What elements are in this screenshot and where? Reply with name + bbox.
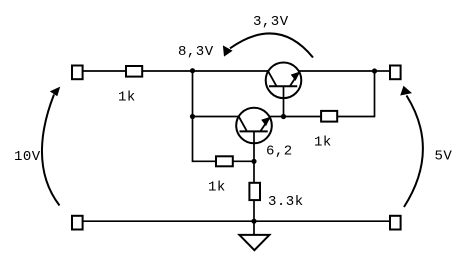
transistor Q1 (top)	[266, 63, 302, 99]
wire top rail: node A to Q1 collector	[193, 70, 271, 72]
annotation arrow 10V (left arc)	[42, 87, 60, 206]
wire bottom rail: terminal T3 to node F	[83, 220, 254, 222]
wire: left vertical from node A down to corner	[192, 70, 194, 162]
wire: R2 to node E	[233, 160, 254, 162]
svg-text:1k: 1k	[314, 135, 332, 151]
node A (8,3V junction)	[190, 68, 195, 73]
annotation arrow 5V (right arc)	[400, 86, 423, 207]
wire: R3 to right corner	[337, 116, 375, 118]
wire: R4 to node F	[253, 200, 255, 221]
node C (left mid junction)	[190, 114, 195, 119]
node B (top right junction)	[372, 68, 377, 73]
resistor R4 value 3.3k (vertical)	[249, 183, 260, 200]
wire top rail: Q1 emitter to node B	[298, 70, 375, 72]
svg-text:8,3V: 8,3V	[178, 44, 214, 60]
wire: Q2 emitter to node D	[268, 116, 284, 118]
node D (Q1 base / Q2 emitter junction)	[281, 114, 286, 119]
terminal T1 (top left)	[72, 66, 83, 80]
svg-text:3,3V: 3,3V	[253, 14, 289, 30]
wire: Q1 base lead down to node D	[283, 86, 285, 116]
transistor Q2 (middle)	[236, 108, 272, 144]
wire: right vertical up to node B	[374, 70, 376, 117]
svg-text:3.3k: 3.3k	[268, 194, 304, 210]
node E (Q2 base junction)	[251, 159, 256, 164]
wire bottom rail: node F to terminal T4	[254, 220, 390, 222]
wire: node C to Q2 collector	[193, 116, 241, 118]
terminal T4 (bottom right)	[390, 216, 401, 230]
wire top rail: R1 to node A	[142, 70, 193, 72]
terminal T3 (bottom left)	[72, 216, 83, 230]
wire: node E to resistor R4	[253, 161, 255, 183]
svg-text:6,2: 6,2	[266, 144, 293, 160]
wire top rail: terminal T1 to resistor R1	[83, 70, 126, 72]
node F (ground junction)	[251, 219, 256, 224]
svg-text:5V: 5V	[435, 149, 453, 165]
wire: node D to resistor R3	[284, 116, 322, 118]
annotation arrow 3,3V (top arc)	[223, 33, 313, 57]
svg-text:1k: 1k	[208, 180, 226, 196]
wire: corner to resistor R2	[193, 160, 217, 162]
ground	[239, 235, 269, 250]
resistor R3 value 1k (right)	[321, 111, 337, 122]
wire: Q2 base lead down to node E	[253, 131, 255, 161]
svg-text:1k: 1k	[118, 89, 136, 105]
resistor R2 value 1k (bottom middle)	[216, 156, 233, 166]
resistor R1 value 1k (top left)	[126, 66, 142, 77]
wire: node F down to ground	[253, 221, 255, 235]
svg-text:10V: 10V	[14, 149, 41, 165]
terminal T2 (top right)	[390, 66, 401, 80]
wire: node B to terminal T2	[375, 70, 391, 72]
